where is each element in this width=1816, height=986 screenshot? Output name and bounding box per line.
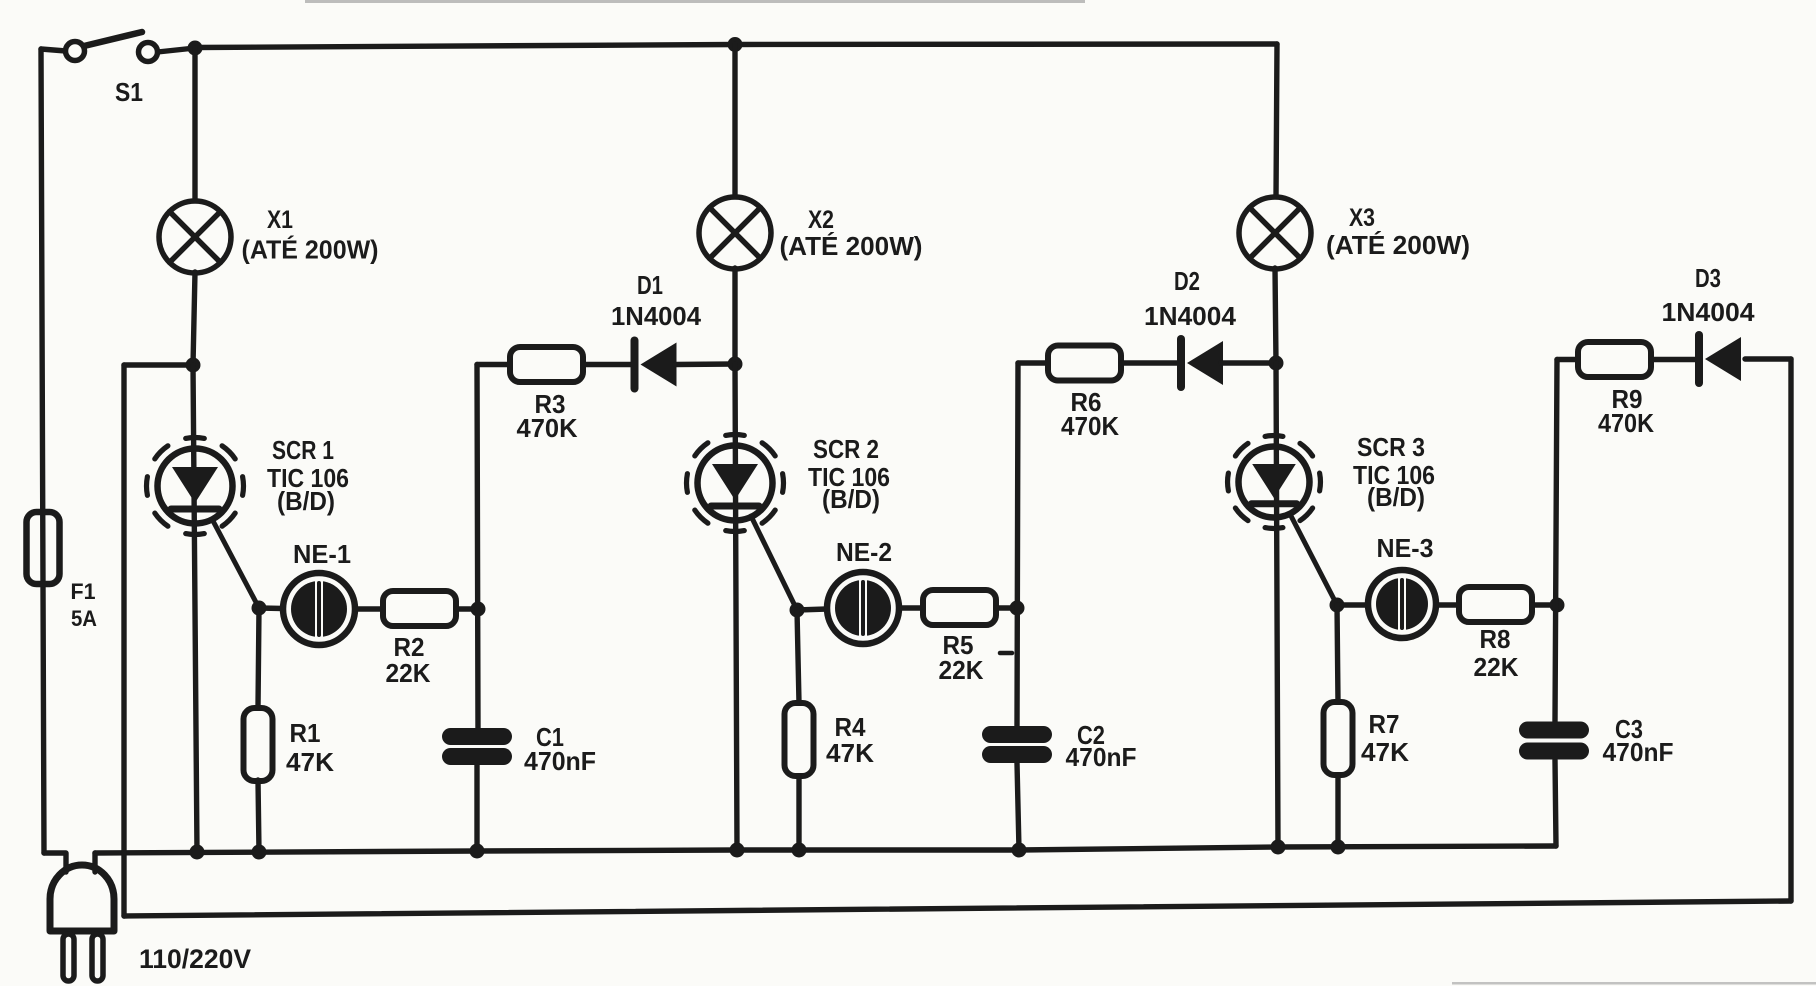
node R8/R9/C3 junction [1550, 598, 1565, 613]
wire R5 to junction [996, 605, 1017, 610]
scan artifact top edge [305, 0, 1085, 3]
neon lamp NE-2 [827, 572, 899, 644]
svg-text:470nF: 470nF [524, 746, 596, 776]
node top bus / X2 junction [728, 37, 743, 52]
capacitor C2 [982, 726, 1052, 763]
svg-text:S1: S1 [115, 77, 143, 107]
node C2/bus1 junction [1012, 843, 1027, 858]
svg-text:NE-2: NE-2 [836, 537, 892, 567]
wire top bus to lamp X2 [732, 45, 737, 199]
svg-text:X1: X1 [267, 206, 293, 234]
wire gate node to NE-2 [797, 609, 827, 610]
capacitor C3 [1519, 722, 1589, 760]
svg-text:47K: 47K [1361, 737, 1409, 767]
wire R6 to D2 [1122, 360, 1178, 365]
wire R8 to junction [1532, 602, 1557, 607]
wire SCR2 gate [751, 516, 797, 610]
lamp X1 [159, 201, 231, 273]
wire bus2 feed drop [121, 365, 126, 916]
wire NE-2 to R5 [899, 605, 923, 610]
lamp X3 [1239, 197, 1311, 269]
wire X1 junction to bus2 feed [124, 362, 193, 367]
svg-text:470nF: 470nF [1066, 742, 1137, 772]
node R4/bus1 junction [792, 843, 807, 858]
svg-text:22K: 22K [386, 658, 431, 688]
node gate 3 junction [1330, 598, 1345, 613]
wire top bus to lamp X3 [1276, 44, 1277, 198]
neon lamp NE-1 [283, 573, 355, 645]
node R1/bus1 junction [252, 845, 267, 860]
resistor R7 [1324, 702, 1353, 775]
svg-text:22K: 22K [1474, 652, 1519, 682]
svg-text:1N4004: 1N4004 [611, 301, 702, 331]
wire SCR3 anode-cathode column [1276, 363, 1278, 847]
svg-text:D3: D3 [1695, 263, 1721, 293]
wire gate node to R1 [258, 608, 259, 708]
wire R6 column [1017, 363, 1018, 726]
svg-text:470K: 470K [517, 413, 578, 443]
svg-text:(ATÉ 200W): (ATÉ 200W) [242, 235, 379, 265]
wire top bus to lamp X1 [192, 48, 197, 200]
svg-text:D1: D1 [637, 270, 663, 300]
svg-text:(B/D): (B/D) [1367, 482, 1425, 512]
wire C1 to bus1 [474, 765, 479, 851]
wire junction to R6 [1018, 360, 1049, 365]
node C1/bus1 junction [470, 844, 485, 859]
node top bus / X1 junction [188, 41, 203, 56]
fuse F1 [27, 512, 60, 584]
wire gate node to NE-1 [259, 605, 283, 611]
wire R9 column [1555, 360, 1557, 722]
node SCR2 cathode/bus1 junction [730, 843, 745, 858]
SCR1 [147, 438, 244, 535]
svg-text:R8: R8 [1480, 624, 1511, 654]
svg-text:SCR 3: SCR 3 [1357, 432, 1425, 462]
node X3/D2/SCR3 junction [1269, 356, 1284, 371]
node X2/D1/SCR2 junction [728, 357, 743, 372]
wire D1 to X2 junction [675, 361, 735, 367]
wire SCR1 gate [212, 519, 259, 608]
wire top supply bus [195, 44, 1277, 48]
wire D2 to X3 junction [1221, 360, 1276, 365]
wire D3 to right edge [1745, 356, 1791, 361]
resistor R4 [785, 703, 814, 776]
wire left mains rail [41, 49, 44, 853]
wire gate node to R7 [1337, 605, 1338, 702]
wire NE-3 to R8 [1438, 602, 1459, 607]
wire from S1 to top bus [158, 48, 196, 52]
wire C2 to bus1 [1017, 763, 1019, 850]
resistor R1 [244, 708, 273, 781]
resistor R9 [1578, 342, 1651, 377]
node gate 1 junction [252, 601, 267, 616]
wire bus1 riser to C3 [1555, 760, 1556, 846]
svg-text:1N4004: 1N4004 [1662, 297, 1756, 327]
plug 110/220V [50, 865, 114, 981]
wire gate node to R4 [797, 610, 799, 703]
resistor R3 [510, 347, 583, 382]
svg-text:R1: R1 [290, 718, 321, 748]
wire R2 to junction [456, 606, 478, 611]
wire R1 to bus1 [258, 780, 259, 852]
svg-text:470K: 470K [1061, 411, 1119, 441]
stray dash mark [1000, 651, 1012, 656]
resistor R6 [1048, 346, 1121, 381]
svg-text:5A: 5A [71, 606, 97, 631]
svg-text:47K: 47K [826, 738, 874, 768]
svg-text:110/220V: 110/220V [139, 944, 251, 974]
resistor R5 [923, 590, 996, 625]
wire plug to neutral bus [92, 853, 97, 872]
neon lamp NE-3 [1368, 570, 1436, 638]
diode D3 1N4004 [1699, 335, 1741, 383]
node R5/R6/C2 junction [1010, 601, 1025, 616]
svg-text:(B/D): (B/D) [277, 486, 335, 516]
wire lamp X2 to junction [732, 268, 737, 364]
svg-text:X3: X3 [1349, 204, 1375, 232]
diode D2 1N4004 [1181, 339, 1223, 387]
wire NE-1 to R2 [355, 606, 383, 611]
wire lamp X1 to junction [193, 272, 195, 365]
node R7/bus1 junction [1331, 840, 1346, 855]
wire SCR3 gate [1290, 514, 1337, 605]
wire R3 column [477, 365, 478, 729]
wire R3 to D1 [584, 362, 631, 367]
SCR2 [687, 435, 784, 532]
svg-text:(ATÉ 200W): (ATÉ 200W) [1326, 230, 1470, 260]
svg-text:F1: F1 [71, 579, 96, 604]
svg-text:SCR 1: SCR 1 [272, 435, 334, 465]
svg-text:470nF: 470nF [1603, 737, 1674, 767]
wire SCR2 anode-cathode column [735, 364, 737, 850]
svg-text:47K: 47K [286, 747, 334, 777]
svg-text:X2: X2 [808, 206, 834, 234]
wire feedback bus (bus2) [124, 901, 1791, 916]
wire R4 to bus1 [796, 776, 801, 850]
diode D1 1N4004 [635, 341, 677, 389]
SCR3 [1228, 436, 1321, 529]
svg-text:NE-3: NE-3 [1377, 533, 1434, 563]
node SCR3 cathode/bus1 junction [1271, 840, 1286, 855]
wire top-left corner to S1 [41, 49, 66, 51]
svg-text:D2: D2 [1174, 266, 1200, 296]
wire gate node to NE-3 [1337, 602, 1366, 607]
wire junction to R3 [477, 362, 511, 367]
svg-text:(ATÉ 200W): (ATÉ 200W) [780, 231, 923, 261]
wire right edge riser to D3 [1788, 359, 1793, 901]
svg-text:22K: 22K [939, 655, 984, 685]
wire neutral bus (bus1) [95, 846, 1556, 853]
svg-text:SCR 2: SCR 2 [813, 434, 879, 464]
node X1/SCR1/bus2 junction [186, 358, 201, 373]
wire rail to plug step [44, 853, 66, 872]
lamp X2 [699, 197, 771, 269]
svg-text:R7: R7 [1369, 709, 1400, 739]
wire SCR1 anode-cathode column [193, 365, 197, 852]
svg-text:(B/D): (B/D) [822, 484, 880, 514]
svg-text:NE-1: NE-1 [293, 539, 351, 569]
node SCR1 cathode/bus1 junction [190, 845, 205, 860]
svg-text:1N4004: 1N4004 [1144, 301, 1237, 331]
resistor R2 [383, 591, 456, 626]
wire lamp X3 to junction [1275, 268, 1276, 363]
wire junction to R9 [1557, 357, 1579, 362]
resistor R8 [1459, 587, 1532, 622]
wire R7 to bus1 [1335, 775, 1340, 847]
node R2/R3/C1 junction [471, 602, 486, 617]
wire R9 to D3 [1652, 357, 1696, 362]
scan artifact bottom right edge [1452, 982, 1816, 985]
node gate 2 junction [790, 603, 805, 618]
capacitor C1 [442, 728, 512, 765]
svg-text:470K: 470K [1598, 408, 1654, 438]
switch S1 [66, 32, 158, 62]
